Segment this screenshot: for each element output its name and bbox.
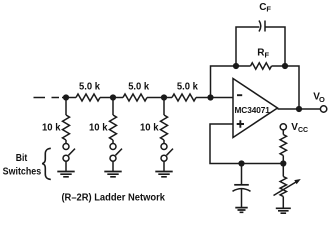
svg-text:10 k: 10 k <box>89 123 108 134</box>
svg-text:5.0 k: 5.0 k <box>79 82 100 93</box>
svg-text:F: F <box>265 50 270 59</box>
svg-text:Bit: Bit <box>16 153 28 164</box>
svg-text:C: C <box>259 2 266 13</box>
svg-text:10 k: 10 k <box>42 123 61 134</box>
svg-text:10 k: 10 k <box>140 123 159 134</box>
svg-text:CC: CC <box>298 127 308 134</box>
svg-text:Switches: Switches <box>3 167 42 178</box>
svg-text:5.0 k: 5.0 k <box>177 82 198 93</box>
svg-text:5.0 k: 5.0 k <box>128 82 149 93</box>
svg-text:(R–2R) Ladder Network: (R–2R) Ladder Network <box>61 192 165 203</box>
svg-text:MC34071: MC34071 <box>235 105 271 115</box>
svg-text:F: F <box>266 5 271 14</box>
svg-text:O: O <box>319 95 325 104</box>
